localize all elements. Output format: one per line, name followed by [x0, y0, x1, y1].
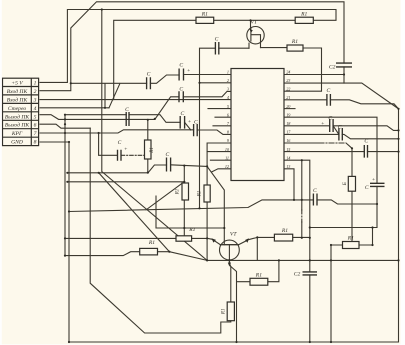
- svg-text:8: 8: [34, 140, 37, 146]
- svg-text:2: 2: [34, 89, 37, 95]
- wire Стерео pin4 down: [40, 107, 109, 109]
- resistor Rv2 vertical mid: [204, 185, 210, 202]
- svg-text:C: C: [125, 107, 129, 113]
- svg-text:VT: VT: [230, 232, 237, 238]
- svg-text:+: +: [124, 147, 128, 153]
- svg-text:GND: GND: [11, 140, 23, 146]
- svg-text:5: 5: [227, 104, 229, 109]
- capacitor C at x195 y130: [194, 124, 198, 136]
- wire IC left stubs: [207, 152, 231, 172]
- svg-text:13: 13: [286, 164, 290, 169]
- resistor R1 vertical bottom: [227, 302, 234, 321]
- capacitor C at IC pin 21: [327, 94, 331, 106]
- svg-text:2: 2: [227, 78, 229, 83]
- svg-text:+: +: [187, 68, 191, 74]
- wire mid bus y260: [207, 259, 398, 261]
- wire bottom resistor R1 net: [331, 228, 373, 343]
- svg-text:Выход ПК: Выход ПК: [5, 122, 30, 129]
- wire VT2 emitter right to R1: [239, 237, 310, 260]
- svg-text:C2: C2: [329, 64, 336, 70]
- wire VT2 emitter down to R1 and bottom: [90, 128, 231, 333]
- svg-text:C: C: [194, 120, 198, 126]
- svg-text:5: 5: [34, 114, 37, 120]
- svg-text:Выход ПК: Выход ПК: [5, 113, 30, 120]
- svg-text:C: C: [215, 37, 219, 43]
- wire resistor Rv0 top lead: [147, 120, 149, 173]
- svg-text:12: 12: [225, 164, 229, 169]
- wire y172: [67, 165, 166, 173]
- svg-text:7: 7: [34, 131, 37, 137]
- capacitor C at IC pin 17: [339, 128, 342, 141]
- wire vertical x102 and diagonal D1: [102, 10, 207, 261]
- svg-text:C: C: [365, 185, 369, 191]
- svg-text:C: C: [338, 124, 342, 130]
- resistor R1 below VT2: [250, 278, 268, 285]
- wire VT2 base feed: [156, 196, 224, 228]
- wire IC pin9 down through Rv2: [207, 143, 231, 238]
- svg-text:VT: VT: [251, 19, 258, 25]
- wire IC pin 24 to C2: [283, 74, 344, 76]
- svg-text:24: 24: [286, 69, 290, 74]
- transistor VT1 arrow: [250, 29, 253, 33]
- svg-text:R1: R1: [197, 191, 202, 198]
- resistor R1 bottom right: [343, 242, 360, 249]
- capacitor C at VT1 base: [215, 42, 218, 55]
- capacitor C at IC pin 16 path: [364, 145, 367, 158]
- svg-text:14: 14: [286, 155, 290, 160]
- svg-text:1: 1: [34, 81, 37, 87]
- svg-text:R1: R1: [347, 236, 354, 242]
- svg-text:Б: Б: [343, 182, 348, 186]
- capacitor C at IC pin 13 path: [313, 194, 317, 206]
- svg-text:22: 22: [286, 87, 290, 92]
- capacitor C+ electrolytic right: [370, 183, 385, 186]
- svg-text:C: C: [364, 139, 368, 145]
- junction dots: [101, 8, 103, 10]
- svg-text:+: +: [372, 177, 376, 183]
- IC U1 body: [231, 69, 284, 181]
- IC pin numbers right: [286, 69, 291, 169]
- svg-text:1: 1: [227, 69, 229, 74]
- resistor R1 right of VT2: [274, 234, 292, 241]
- svg-text:21: 21: [286, 95, 290, 100]
- IC pin numbers left: [225, 69, 230, 169]
- resistor R1 at VT1 emitter: [287, 45, 303, 51]
- svg-text:+: +: [188, 119, 192, 125]
- wire IC pin2: [200, 82, 232, 84]
- transistor VT2 circle: [220, 240, 240, 260]
- svg-text:R1: R1: [281, 228, 288, 234]
- wire lower left net y255 to R1: [65, 252, 207, 261]
- wire Выход ПК pin6: [40, 124, 90, 128]
- svg-text:R1: R1: [150, 147, 155, 154]
- capacitor C at x168 y163: [167, 158, 171, 172]
- transistor VT2 right arrow: [245, 238, 249, 243]
- resistor R1 above VT2: [176, 236, 192, 241]
- svg-text:C2: C2: [294, 271, 301, 277]
- svg-text:C: C: [166, 152, 170, 158]
- svg-text:6: 6: [34, 123, 37, 129]
- wire Rv2 net to bus: [206, 238, 208, 260]
- svg-text:Вход ПК: Вход ПК: [7, 88, 28, 95]
- wire VT2 left lead through R1: [65, 238, 220, 244]
- wire Вход ПК pin3 to IC pin4: [40, 99, 231, 101]
- svg-text:4: 4: [227, 95, 229, 100]
- wire IC pin 16 dash-dot segment to resistor: [283, 142, 319, 144]
- wire cap line to IC pin3: [183, 91, 231, 96]
- resistor Б vertical right: [348, 176, 355, 191]
- wire IC pin 19 to right: [283, 117, 377, 227]
- wire IC pin 21 through capacitor C: [283, 100, 399, 109]
- svg-text:11: 11: [225, 155, 229, 160]
- svg-text:3: 3: [227, 87, 229, 92]
- svg-text:R1: R1: [176, 189, 181, 196]
- wire pin 14 branch dash-dot: [301, 160, 303, 238]
- wire resistor Rv1 leads: [67, 166, 184, 236]
- capacitor C2 bottom: [303, 272, 318, 275]
- svg-text:C: C: [147, 71, 151, 77]
- svg-text:КРГ: КРГ: [11, 131, 23, 137]
- transistor VT2 base bar: [220, 244, 238, 246]
- svg-text:C: C: [328, 116, 332, 122]
- svg-text:R1: R1: [201, 12, 208, 18]
- capacitor C at IC pin 18: [330, 119, 333, 132]
- wire IC pin 20 stub: [283, 108, 295, 110]
- capacitor C at x127 y120: [126, 112, 129, 126]
- svg-text:+: +: [321, 121, 325, 127]
- capacitor C+ at x181 y71: [179, 69, 183, 81]
- capacitor C at x148 y82: [147, 77, 151, 89]
- wire КРГ pin7: [40, 130, 194, 133]
- svg-text:Стерео: Стерео: [8, 106, 27, 112]
- svg-text:C: C: [179, 63, 183, 69]
- wire Выход ПК pin5 caps chain to IC pin8: [65, 115, 231, 135]
- svg-text:Вход ПК: Вход ПК: [7, 96, 28, 103]
- capacitor C2 top right: [336, 63, 352, 67]
- wire cap chain to IC pin1: [71, 75, 231, 108]
- capacitor C+ at x114 y155: [118, 150, 122, 161]
- wire VT1 emitter to R1 to IC pin 22: [261, 48, 322, 92]
- wire pin5 jog to pin3 cap diagonal: [40, 97, 179, 120]
- svg-text:R1: R1: [222, 309, 227, 316]
- svg-text:R1: R1: [148, 240, 155, 246]
- svg-text:R1: R1: [188, 227, 195, 233]
- capacitor C at x181 y96: [179, 91, 183, 102]
- wire y207 to Rv1: [69, 183, 294, 211]
- wire diagonal D2: [99, 173, 170, 252]
- wire transistor VT1 base line with capacitor C: [200, 48, 250, 208]
- wire IC pin 23 to right edge: [283, 83, 399, 109]
- transistor VT1 circle: [247, 27, 264, 44]
- wire GND pin8 left bus and bottom bus: [40, 109, 399, 342]
- svg-text:3: 3: [33, 97, 37, 103]
- svg-text:C: C: [181, 111, 185, 117]
- transistor VT1 leads: [249, 20, 261, 48]
- capacitor C+ at x182 y122: [180, 116, 184, 129]
- wire y155 cap chain to resistors: [99, 133, 225, 245]
- transistor VT2 emitter arrow: [228, 263, 231, 267]
- wire net Вход-ПК pin2 to top rail W1: [40, 2, 344, 91]
- svg-text:C: C: [327, 88, 331, 94]
- resistor R1 lower left: [140, 248, 158, 255]
- svg-text:C: C: [179, 86, 183, 92]
- wire IC pin 15 to electrolytic cap branch: [283, 151, 399, 153]
- wire dash-dot capacitor to resistor Rv0: [121, 154, 144, 156]
- svg-text:R1: R1: [291, 39, 298, 45]
- svg-text:R1: R1: [300, 12, 307, 18]
- svg-text:C: C: [118, 140, 122, 146]
- wire IC pin 18 through capacitor pair: [283, 126, 399, 135]
- wire IC pin 14 down right side: [283, 160, 310, 342]
- scan white margins: [0, 0, 2, 345]
- svg-text:R1: R1: [255, 272, 262, 278]
- svg-text:+5 V: +5 V: [11, 81, 23, 87]
- connector labels: [5, 81, 37, 146]
- transistor VT2 left arrow: [212, 238, 217, 242]
- resistor Rv1 vertical mid: [182, 183, 189, 200]
- wire IC pin 13 through capacitor C: [283, 169, 377, 204]
- svg-text:4: 4: [34, 106, 37, 112]
- svg-text:15: 15: [286, 147, 290, 152]
- svg-text:C: C: [313, 188, 317, 194]
- connector X1 body: [3, 78, 39, 145]
- wire IC pin5 pin6 pin7 stubs: [208, 109, 231, 126]
- wire R1 lower right resistor leads: [231, 260, 279, 342]
- svg-text:23: 23: [286, 78, 290, 83]
- wire vertical x65: [64, 115, 66, 256]
- resistor R1 top left: [196, 17, 214, 23]
- resistor R1 top right: [295, 17, 313, 23]
- rotated resistor labels: [150, 147, 348, 315]
- wire net +5V pin1 to resistor rail W2: [40, 10, 336, 100]
- resistor Rv0 vertical left: [145, 140, 152, 159]
- wire IC pin 17 through caps to right vertical: [283, 134, 399, 138]
